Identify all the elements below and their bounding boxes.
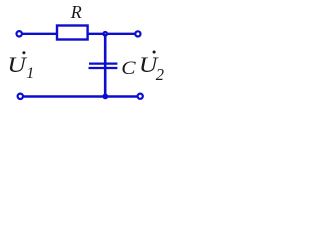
wire resistor to node A <box>88 33 106 35</box>
wire bottom-left segment <box>24 95 106 97</box>
terminal 1' (bottom-left) <box>18 94 23 99</box>
terminal 2 (top-right) <box>135 31 140 36</box>
terminal 1 (top-left) <box>17 31 22 36</box>
svg-text:1: 1 <box>26 65 34 82</box>
terminal 2' (bottom-right) <box>138 94 143 99</box>
node B junction dot <box>102 94 108 100</box>
node A junction dot <box>102 31 108 37</box>
capacitor C bottom plate <box>89 67 118 69</box>
svg-text:2: 2 <box>156 65 164 84</box>
resistor R1 body <box>57 26 88 40</box>
svg-text:C: C <box>121 58 136 79</box>
svg-text:R: R <box>70 2 82 22</box>
wire capacitor branch vertical <box>104 34 107 97</box>
capacitor C top plate <box>89 62 117 64</box>
wire node A to top-right terminal <box>105 33 135 35</box>
wire top-left segment <box>22 33 57 35</box>
svg-text:U: U <box>7 53 27 77</box>
wire bottom-right segment <box>105 95 137 97</box>
